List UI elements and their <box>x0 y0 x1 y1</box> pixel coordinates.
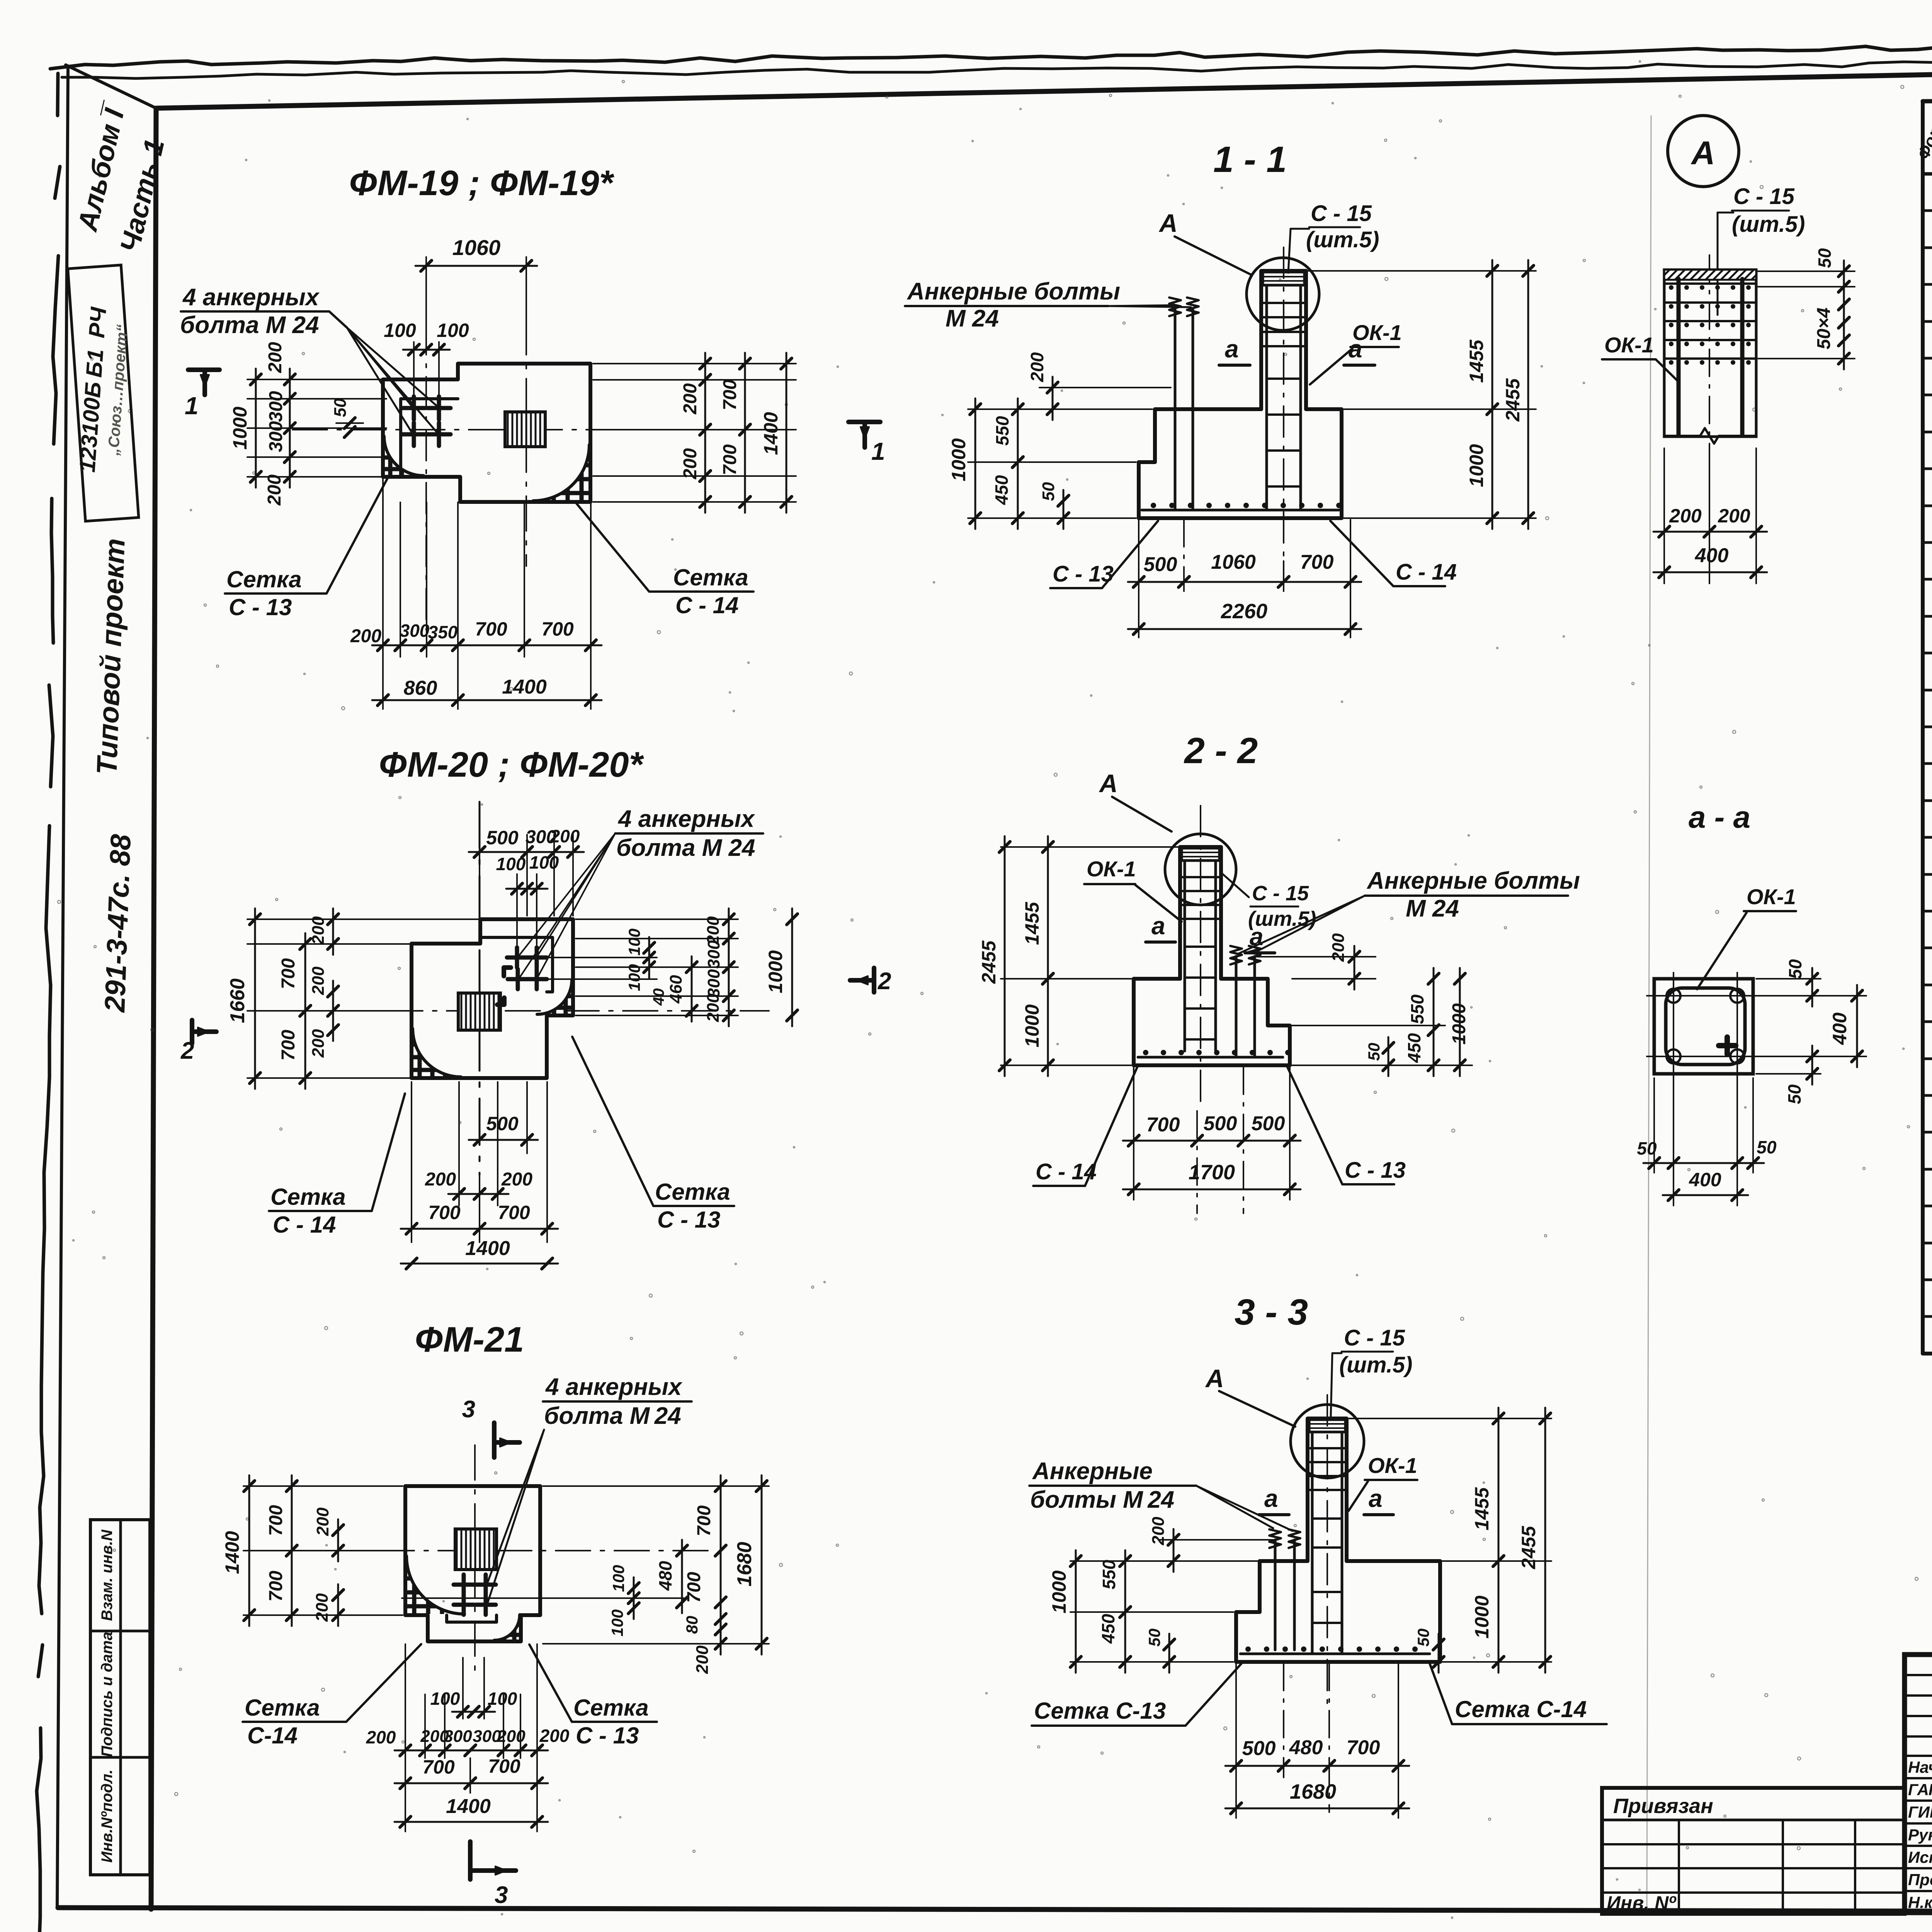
svg-text:500: 500 <box>1252 1112 1285 1135</box>
svg-text:200: 200 <box>704 993 723 1022</box>
svg-text:1455: 1455 <box>1021 901 1043 945</box>
dim right 50 bottom a-a <box>1756 1073 1821 1075</box>
svg-text:Сетка: Сетка <box>226 566 302 592</box>
svg-text:1455: 1455 <box>1471 1487 1493 1530</box>
svg-text:50: 50 <box>1785 959 1805 979</box>
paper corner line top-left <box>66 65 156 108</box>
dim 1000 left <box>968 408 1152 410</box>
section 3-3 cage ties <box>1312 1517 1342 1520</box>
svg-text:200: 200 <box>309 966 328 995</box>
svg-text:Проверил: Проверил <box>1908 1871 1932 1889</box>
inventory stamp box (rotated) <box>68 265 138 521</box>
plan FM-19 centerline bolt axis <box>425 324 427 630</box>
svg-text:(шт.5): (шт.5) <box>1732 212 1805 237</box>
detail a-a outer square <box>1654 979 1753 1074</box>
svg-text:3: 3 <box>495 1882 508 1908</box>
dim bottom 1400 (FM-20) <box>401 1263 558 1265</box>
svg-text:400: 400 <box>1695 544 1729 567</box>
svg-text:М 24: М 24 <box>1406 895 1459 922</box>
svg-text:Анкерные болты: Анкерные болты <box>906 278 1120 305</box>
svg-text:ОК-1: ОК-1 <box>1368 1453 1417 1478</box>
dim 100 100 (FM-21 bottom) <box>462 1658 464 1719</box>
dim bottom 700 700 (FM-20) <box>411 1082 412 1242</box>
svg-text:С - 15: С - 15 <box>1344 1325 1405 1350</box>
svg-text:300: 300 <box>444 1727 472 1746</box>
svg-text:Инв.Nºподл.: Инв.Nºподл. <box>99 1769 116 1862</box>
svg-text:(шт.5): (шт.5) <box>1306 227 1379 252</box>
section 3-3 centerline column <box>1327 1395 1328 1708</box>
dim 50 left <box>1063 490 1065 529</box>
svg-text:450: 450 <box>992 475 1012 505</box>
dim 550/450 left <box>1017 398 1019 529</box>
dim right chain 200 300 300 200 (pad) <box>576 918 738 920</box>
svg-text:100: 100 <box>437 320 469 341</box>
plan FM-21 bolt axis horizontal <box>402 1597 684 1599</box>
dim bottom 700 700 (FM-21) <box>405 1758 406 1793</box>
dim left 700 700 <box>304 933 306 1089</box>
svg-text:200: 200 <box>539 1726 570 1746</box>
svg-text:450: 450 <box>1098 1614 1118 1644</box>
plan FM-19 centerline horizontal <box>293 429 678 430</box>
svg-text:200: 200 <box>680 448 701 480</box>
scan paper top edge (wavy double line) <box>50 39 1932 69</box>
dim right 1455 1000 3-3 <box>1349 1418 1551 1419</box>
dim right 1000 2-2 <box>1459 968 1461 1076</box>
svg-text:Сетка С-13: Сетка С-13 <box>1034 1698 1166 1724</box>
svg-text:700: 700 <box>541 618 574 640</box>
svg-text:700: 700 <box>488 1755 520 1777</box>
svg-text:ФМ-20 ; ФМ-20*: ФМ-20 ; ФМ-20* <box>379 745 645 784</box>
dim right 700 700 <box>744 353 746 513</box>
svg-text:550: 550 <box>1407 994 1427 1024</box>
dim left 550 450 3-3 <box>1124 1550 1126 1673</box>
svg-text:100: 100 <box>496 854 526 874</box>
svg-text:40: 40 <box>650 988 667 1006</box>
drawing frame <box>156 59 1932 108</box>
svg-text:1000: 1000 <box>948 438 969 481</box>
svg-text:200: 200 <box>1718 505 1750 527</box>
dim left 1000 3-3 <box>1070 1560 1257 1562</box>
svg-text:480: 480 <box>655 1561 675 1591</box>
svg-text:100: 100 <box>609 1565 628 1592</box>
plan FM-19 centerline vertical main axis <box>526 320 527 566</box>
svg-text:а: а <box>1369 1485 1383 1512</box>
dim 200 left (bolt top) <box>1039 387 1171 388</box>
svg-text:1000: 1000 <box>1021 1004 1043 1047</box>
svg-text:500: 500 <box>1204 1112 1237 1135</box>
svg-text:450: 450 <box>1404 1033 1424 1063</box>
svg-text:3: 3 <box>462 1396 475 1423</box>
detail circle А on column head <box>1247 258 1319 330</box>
svg-text:а: а <box>1225 335 1239 363</box>
scan paper left edge (jagged dashed line) <box>37 73 60 1932</box>
svg-text:3 - 3: 3 - 3 <box>1235 1292 1308 1333</box>
plan FM-20 centerline horizontal <box>270 1010 769 1012</box>
section mark 3 (top) <box>492 1423 497 1458</box>
section 1-1 column rebar <box>1265 285 1268 508</box>
svg-text:1400: 1400 <box>502 676 547 698</box>
svg-text:4 анкерных: 4 анкерных <box>182 284 320 311</box>
section 2-2 mesh C-15 ties <box>1182 876 1219 878</box>
svg-text:200: 200 <box>497 1727 526 1746</box>
dim left 50 3-3 <box>1168 1634 1170 1673</box>
svg-text:300: 300 <box>400 621 430 641</box>
svg-text:болта М 24: болта М 24 <box>616 835 755 861</box>
dim right 50 top a-a <box>1756 978 1821 980</box>
plan FM-19 anchor plate inner lines <box>401 399 458 477</box>
svg-text:200: 200 <box>264 474 285 506</box>
svg-text:С - 15: С - 15 <box>1252 882 1309 905</box>
dim 1000 left overall <box>255 369 257 488</box>
svg-text:200: 200 <box>680 383 701 415</box>
dim bottom 2260 <box>1138 591 1139 638</box>
dim 200 200 bottom detail A <box>1663 448 1665 583</box>
svg-text:1000: 1000 <box>1466 444 1487 487</box>
svg-text:100: 100 <box>529 852 559 872</box>
dim right 1400 <box>786 353 787 513</box>
svg-text:1400: 1400 <box>760 412 782 455</box>
svg-text:ГАП: ГАП <box>1908 1781 1932 1799</box>
svg-text:1000: 1000 <box>1048 1570 1070 1613</box>
svg-text:700: 700 <box>422 1756 455 1778</box>
svg-text:2260: 2260 <box>1221 600 1267 623</box>
dim bottom 1680 3-3 <box>1235 1777 1237 1818</box>
leader Сетка С-13 FM-20 <box>572 1037 653 1206</box>
dim top 500 300 200 <box>479 835 480 916</box>
dim 50 (axis offset) <box>344 418 355 429</box>
svg-text:2455: 2455 <box>1518 1526 1539 1569</box>
plan FM-20 outline <box>412 919 573 1078</box>
svg-text:200: 200 <box>309 1029 328 1058</box>
detail A circle label <box>1668 116 1739 187</box>
svg-text:700: 700 <box>498 1202 530 1223</box>
dim bottom 200 200 (FM-20) <box>458 1082 460 1206</box>
dim left small 200 200 <box>337 1519 339 1561</box>
svg-text:50: 50 <box>1784 1084 1804 1104</box>
dim left 2455 2-2 <box>1004 836 1006 1076</box>
svg-text:400: 400 <box>1689 1169 1721 1190</box>
anchor bolts 2-2 <box>1235 956 1238 1057</box>
svg-text:100: 100 <box>608 1609 626 1636</box>
svg-text:200: 200 <box>501 1169 532 1190</box>
section mark 1 (right) <box>849 420 880 424</box>
svg-text:а - а: а - а <box>1689 800 1750 834</box>
dim bottom 700 500 500 2-2 <box>1196 1111 1198 1213</box>
left margin attribute boxes <box>90 1520 150 1875</box>
svg-text:2: 2 <box>180 1037 194 1064</box>
svg-text:Сетка: Сетка <box>655 1179 730 1205</box>
dim chain bottom 200 200 300 300 200 200 <box>405 1694 406 1758</box>
svg-text:500: 500 <box>486 827 519 849</box>
plan FM-21 anchor bolts <box>454 1583 474 1587</box>
section 2-2 column cap band <box>1182 848 1219 861</box>
section 2-2 cage ties <box>1185 946 1216 948</box>
dim right 50 2-2 <box>1388 1037 1389 1076</box>
svg-text:700: 700 <box>475 618 507 640</box>
svg-text:700: 700 <box>266 1505 286 1536</box>
svg-text:Анкерные болты: Анкерные болты <box>1366 867 1580 894</box>
footing bottom rebar dots <box>1151 503 1156 508</box>
section 2-2 footing outline <box>1134 979 1290 1065</box>
svg-text:Исполнил: Исполнил <box>1908 1848 1932 1866</box>
svg-text:а: а <box>1151 912 1165 940</box>
dim top 100 100 <box>516 874 518 945</box>
svg-text:100: 100 <box>625 964 643 991</box>
svg-text:Сетка С-14: Сетка С-14 <box>1455 1696 1587 1722</box>
svg-text:200: 200 <box>693 1645 712 1674</box>
dim right 700 (FM-21) <box>543 1485 769 1487</box>
svg-text:болта М 24: болта М 24 <box>180 312 319 338</box>
detail circle А 3-3 <box>1291 1405 1364 1478</box>
dim right small 100 100 (FM-21) <box>633 1577 635 1619</box>
section 3-3 footing outline <box>1236 1561 1440 1662</box>
svg-text:80: 80 <box>683 1616 701 1634</box>
section 1-1 column outline <box>1261 271 1306 409</box>
dim 100 100 (top bolts) <box>413 342 415 394</box>
svg-text:700: 700 <box>1146 1114 1180 1136</box>
svg-text:700: 700 <box>1300 551 1334 573</box>
anchor bolts in section 1-1 <box>1174 309 1177 510</box>
svg-text:Н.контр: Н.контр <box>1908 1893 1932 1912</box>
dim chain left 200 300 300 200 <box>247 379 386 380</box>
svg-text:50: 50 <box>1039 482 1058 501</box>
svg-text:700: 700 <box>1347 1736 1380 1759</box>
svg-text:С-14: С-14 <box>247 1723 298 1748</box>
detail A break line bottom <box>1664 428 1756 444</box>
dim right 400 a-a <box>1756 995 1866 997</box>
leader Сетка С-14 FM-21 <box>328 1644 421 1722</box>
leader fan to bolts FM-20 <box>519 833 615 955</box>
svg-text:1700: 1700 <box>1189 1161 1235 1184</box>
svg-text:400: 400 <box>1829 1012 1850 1045</box>
svg-text:Сетка: Сетка <box>270 1184 346 1210</box>
svg-text:550: 550 <box>992 416 1012 446</box>
svg-text:200: 200 <box>425 1169 456 1190</box>
svg-text:100: 100 <box>625 929 643 956</box>
footing bottom dots 3-3 <box>1245 1646 1251 1652</box>
svg-text:1000: 1000 <box>1449 1003 1469 1044</box>
svg-text:480: 480 <box>1289 1736 1323 1759</box>
svg-text:700: 700 <box>428 1202 461 1223</box>
svg-text:С - 15: С - 15 <box>1311 201 1372 226</box>
svg-text:50: 50 <box>1145 1629 1163 1647</box>
svg-text:550: 550 <box>1099 1560 1119 1589</box>
svg-text:С - 13: С - 13 <box>229 594 292 620</box>
svg-text:1680: 1680 <box>1290 1780 1336 1803</box>
svg-text:50×4: 50×4 <box>1814 308 1834 349</box>
svg-text:50: 50 <box>1414 1629 1432 1647</box>
paper fold line vertical (faint) <box>1647 116 1651 1909</box>
section 3-3 mesh C-15 ties <box>1310 1447 1345 1449</box>
svg-text:200: 200 <box>1329 933 1348 962</box>
dim right small 100 100 <box>648 937 650 978</box>
dim bottom 50 50 a-a <box>1653 1078 1655 1173</box>
svg-text:200: 200 <box>1149 1517 1168 1546</box>
svg-text:Рук.гр.: Рук.гр. <box>1908 1826 1932 1844</box>
plan FM-20 anchor bolts <box>507 956 527 960</box>
dim right 1000 (pad) <box>791 908 793 1026</box>
section 2-2 centerline column <box>1200 806 1201 1109</box>
svg-text:200: 200 <box>366 1727 396 1747</box>
svg-text:100: 100 <box>384 320 416 341</box>
dim right 2455 3-3 <box>1544 1408 1546 1673</box>
svg-text:С - 13: С - 13 <box>657 1207 720 1233</box>
section 1-1 centerline column <box>1283 247 1284 561</box>
spec table grid <box>1923 98 1932 101</box>
svg-text:Сетка: Сетка <box>673 565 748 590</box>
svg-text:ОК-1: ОК-1 <box>1604 333 1654 357</box>
svg-text:300: 300 <box>704 969 723 998</box>
svg-text:Взам. инв.N: Взам. инв.N <box>99 1529 116 1621</box>
dim right 460 40 <box>691 956 693 1022</box>
plan FM-21 column hatch square <box>455 1529 497 1570</box>
detail A longitudinal bars <box>1677 279 1681 436</box>
svg-text:М 24: М 24 <box>946 305 999 332</box>
svg-text:700: 700 <box>278 1030 299 1061</box>
anchor bolts 3-3 <box>1274 1540 1277 1650</box>
section 1-1 mesh C-15 ties <box>1264 302 1304 304</box>
svg-text:ГИП: ГИП <box>1908 1803 1932 1821</box>
svg-text:1660: 1660 <box>226 978 249 1023</box>
svg-text:Привязан: Привязан <box>1613 1794 1713 1818</box>
dim left small 200 200 axis <box>332 981 334 1041</box>
dim bottom 500 480 700 3-3 <box>1283 1663 1284 1777</box>
section mark 1 (left) <box>188 367 219 372</box>
detail a-a axis lines <box>1673 973 1674 1090</box>
svg-text:300: 300 <box>266 421 286 452</box>
dim left small 200 top <box>332 908 334 955</box>
dim 400 bottom detail A <box>1653 571 1767 573</box>
svg-text:700: 700 <box>720 379 740 410</box>
plan FM-21 inner step lines <box>447 1615 497 1622</box>
dim left 1660 <box>247 918 479 920</box>
svg-text:А: А <box>1205 1364 1224 1393</box>
footing bottom dots 2-2 <box>1143 1050 1148 1055</box>
dim chain right 200/200 <box>593 363 796 364</box>
svg-text:А: А <box>1099 769 1118 798</box>
svg-text:болта М 24: болта М 24 <box>544 1403 681 1429</box>
svg-text:Инв. Nº: Инв. Nº <box>1607 1892 1677 1914</box>
dim bottom 400 a-a <box>1673 1173 1674 1206</box>
svg-text:300: 300 <box>266 391 286 422</box>
plan FM-19 anchor bolts M24 <box>402 406 425 410</box>
svg-text:460: 460 <box>667 975 685 1004</box>
svg-text:болты М 24: болты М 24 <box>1030 1486 1174 1513</box>
svg-text:1 - 1: 1 - 1 <box>1213 139 1287 180</box>
svg-text:200: 200 <box>1027 352 1047 382</box>
dim bottom chain 200 300 350 700 700 <box>382 502 384 657</box>
dim bottom 860 1400 <box>382 657 384 709</box>
svg-text:1060: 1060 <box>1211 551 1256 573</box>
plan FM-20 plate corner marks <box>504 968 511 976</box>
svg-text:С - 14: С - 14 <box>273 1212 336 1238</box>
leader Сетка С-13 <box>305 474 389 594</box>
section mark 2 (right) <box>872 968 876 992</box>
svg-text:200: 200 <box>1669 505 1702 527</box>
svg-text:860: 860 <box>404 677 437 699</box>
dim right 1680 (FM-21) <box>543 1643 769 1645</box>
section 3-3 column cap band <box>1309 1420 1345 1432</box>
svg-text:С - 13: С - 13 <box>1345 1158 1406 1183</box>
svg-text:1000: 1000 <box>229 406 251 449</box>
svg-text:А: А <box>1690 135 1715 172</box>
svg-text:Нач.мо: Нач.мо <box>1908 1758 1932 1776</box>
dim 50x4 right <box>1758 358 1855 359</box>
section mark 3 (bottom) <box>468 1842 473 1879</box>
plan FM-21 outline <box>405 1486 540 1641</box>
svg-text:2455: 2455 <box>978 940 1000 984</box>
dim right 200 2-2 <box>1257 956 1376 957</box>
plan FM-20 section line vertical <box>479 802 481 1175</box>
svg-text:1000: 1000 <box>765 950 786 993</box>
dim left 200 3-3 <box>1159 1539 1273 1541</box>
section mark 2 (left) <box>190 1020 194 1043</box>
svg-text:Анкерные: Анкерные <box>1032 1458 1153 1485</box>
svg-text:а: а <box>1264 1485 1278 1512</box>
svg-text:700: 700 <box>720 444 740 475</box>
svg-text:2 - 2: 2 - 2 <box>1184 730 1258 771</box>
svg-text:200: 200 <box>309 916 328 945</box>
svg-text:50: 50 <box>1757 1137 1777 1157</box>
dim 1060 (top) <box>425 257 427 332</box>
svg-text:700: 700 <box>266 1571 286 1602</box>
plan FM-21 centerline horizontal <box>321 1550 715 1551</box>
svg-text:500: 500 <box>1144 553 1177 576</box>
leader fan to bolts FM-21 <box>488 1430 544 1582</box>
detail a-a corner bar circles <box>1667 989 1680 1003</box>
svg-text:Сетка: Сетка <box>245 1695 320 1721</box>
svg-text:1: 1 <box>185 392 199 420</box>
dim right 2455 <box>1527 260 1529 529</box>
dim bottom 500 (FM-20) <box>526 1082 528 1153</box>
svg-text:а: а <box>1349 335 1362 363</box>
svg-text:Подпись и дата: Подпись и дата <box>99 1632 116 1757</box>
leader Сетка С-14 <box>575 501 672 592</box>
svg-text:700: 700 <box>694 1505 714 1536</box>
leader Сетка С-13 FM-21 <box>529 1645 572 1722</box>
detail A anchor plate hatched <box>1664 270 1756 280</box>
svg-text:700: 700 <box>278 958 299 989</box>
section 2-2 rebar <box>1184 861 1186 1051</box>
dim bottom 1700 2-2 <box>1133 1153 1134 1200</box>
detail a-a cage rounded square <box>1666 988 1745 1065</box>
svg-text:(шт.5): (шт.5) <box>1339 1352 1412 1378</box>
svg-text:200: 200 <box>313 1507 332 1536</box>
svg-text:50: 50 <box>1815 248 1835 268</box>
dim right 80 200 (FM-21) <box>720 1608 722 1655</box>
leader Сетка С-14 FM-20 <box>350 1094 405 1211</box>
svg-text:4 анкерных: 4 анкерных <box>545 1374 683 1400</box>
dim bottom 1400 (FM-21) <box>405 1793 406 1832</box>
svg-text:1400: 1400 <box>465 1237 510 1260</box>
detail a-a weld mark <box>1719 1043 1736 1048</box>
svg-text:Сетка: Сетка <box>573 1695 649 1721</box>
plan FM-20 anchor plate inner lines <box>481 937 553 992</box>
svg-text:С - 15: С - 15 <box>1733 184 1795 209</box>
svg-text:50: 50 <box>1637 1138 1657 1158</box>
svg-text:500: 500 <box>486 1113 519 1134</box>
title block outer frame <box>1905 1655 1932 1913</box>
svg-text:291-3-47с. 88: 291-3-47с. 88 <box>99 833 137 1014</box>
svg-text:1000: 1000 <box>1471 1595 1493 1638</box>
svg-text:200: 200 <box>550 826 580 846</box>
svg-text:С - 13: С - 13 <box>1053 561 1114 587</box>
dim left 700 700 (FM-21) <box>243 1485 403 1487</box>
svg-text:С - 14: С - 14 <box>675 592 738 618</box>
dim bottom 500 1060 700 <box>1183 520 1185 591</box>
svg-text:50: 50 <box>331 398 350 417</box>
svg-text:100: 100 <box>488 1689 517 1709</box>
